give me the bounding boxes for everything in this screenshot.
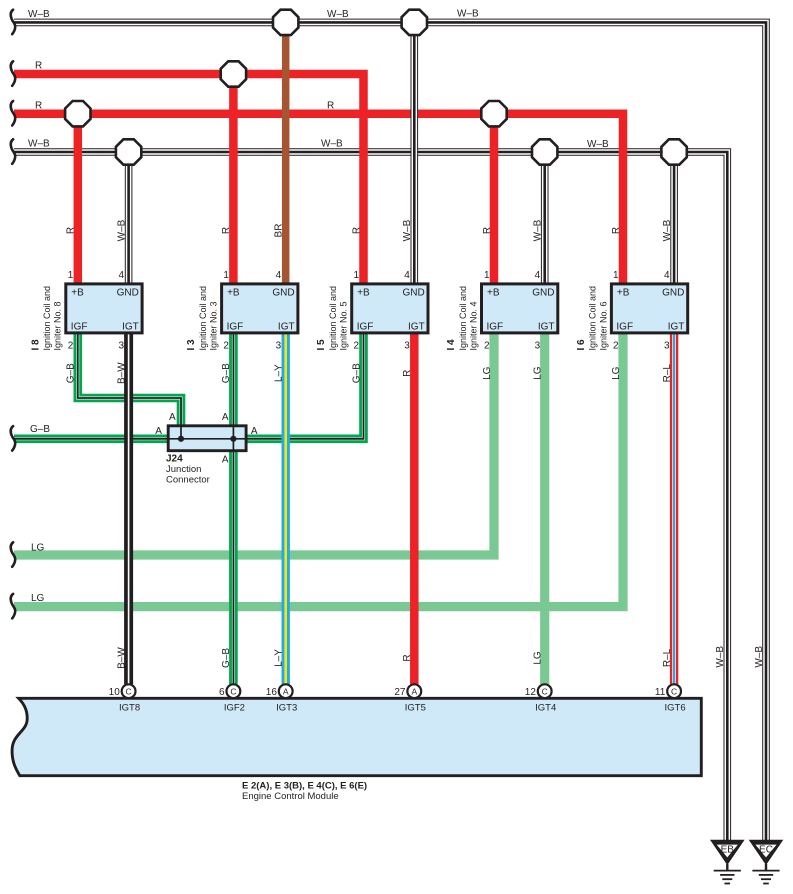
svg-text:EC: EC: [759, 845, 773, 856]
svg-text:R: R: [402, 654, 413, 661]
svg-text:Igniter No. 4: Igniter No. 4: [468, 301, 478, 350]
svg-text:IGT8: IGT8: [119, 703, 140, 714]
svg-text:G–B: G–B: [30, 424, 50, 435]
svg-text:A: A: [283, 686, 289, 696]
svg-text:Ignition Coil and: Ignition Coil and: [328, 286, 338, 351]
svg-text:Igniter No. 8: Igniter No. 8: [53, 301, 63, 350]
svg-text:10: 10: [109, 687, 121, 698]
svg-text:3: 3: [276, 341, 282, 352]
svg-text:W–B: W–B: [116, 219, 127, 241]
svg-text:I 5: I 5: [316, 339, 327, 351]
svg-text:GND: GND: [402, 288, 424, 299]
svg-text:16: 16: [266, 687, 278, 698]
svg-text:4: 4: [404, 270, 410, 281]
svg-text:W–B: W–B: [715, 646, 726, 668]
svg-text:+B: +B: [487, 288, 500, 299]
svg-text:3: 3: [119, 341, 125, 352]
svg-text:R–L: R–L: [662, 648, 673, 667]
svg-text:A: A: [222, 455, 229, 466]
svg-text:IGT: IGT: [408, 322, 425, 333]
svg-text:R: R: [66, 227, 77, 234]
svg-text:4: 4: [535, 270, 541, 281]
svg-text:IGF: IGF: [357, 322, 374, 333]
svg-text:IGF: IGF: [487, 322, 504, 333]
svg-text:R: R: [35, 100, 42, 111]
svg-text:C: C: [230, 686, 236, 696]
svg-text:+B: +B: [617, 288, 630, 299]
svg-text:W–B: W–B: [402, 219, 413, 241]
svg-text:IGT6: IGT6: [665, 703, 686, 714]
svg-text:+B: +B: [71, 288, 84, 299]
svg-text:W–B: W–B: [533, 219, 544, 241]
svg-text:12: 12: [525, 687, 537, 698]
svg-text:A: A: [169, 412, 176, 423]
svg-text:LG: LG: [31, 593, 45, 604]
svg-text:3: 3: [535, 341, 541, 352]
svg-text:1: 1: [484, 270, 490, 281]
svg-text:A: A: [222, 412, 229, 423]
svg-text:G–B: G–B: [221, 648, 232, 668]
svg-text:IGT3: IGT3: [276, 703, 297, 714]
svg-text:W–B: W–B: [457, 9, 479, 20]
svg-text:LG: LG: [482, 366, 493, 380]
svg-text:I 4: I 4: [446, 339, 457, 351]
svg-text:I 6: I 6: [576, 339, 587, 351]
svg-text:I 3: I 3: [186, 339, 197, 351]
svg-text:GND: GND: [117, 288, 139, 299]
svg-text:Igniter No. 3: Igniter No. 3: [209, 301, 219, 350]
svg-text:J24: J24: [166, 454, 183, 465]
svg-text:R: R: [221, 227, 232, 234]
svg-text:W–B: W–B: [28, 139, 50, 150]
svg-text:3: 3: [404, 341, 410, 352]
svg-text:Connector: Connector: [166, 475, 210, 486]
svg-text:B–W: B–W: [116, 647, 127, 669]
svg-text:W–B: W–B: [321, 139, 343, 150]
svg-text:R: R: [327, 100, 334, 111]
svg-text:IGF2: IGF2: [224, 703, 245, 714]
svg-text:+B: +B: [357, 288, 370, 299]
svg-text:GND: GND: [662, 288, 684, 299]
svg-text:R: R: [35, 61, 42, 72]
svg-text:Igniter No. 6: Igniter No. 6: [598, 301, 608, 350]
svg-text:EB: EB: [721, 845, 735, 856]
svg-text:+B: +B: [227, 288, 240, 299]
svg-text:G–B: G–B: [351, 363, 362, 383]
svg-text:4: 4: [119, 270, 125, 281]
svg-text:BR: BR: [274, 224, 285, 238]
svg-text:R–L: R–L: [662, 364, 673, 383]
svg-text:L–Y: L–Y: [274, 364, 285, 382]
svg-text:C: C: [671, 686, 677, 696]
svg-text:IGT4: IGT4: [535, 703, 556, 714]
svg-text:GND: GND: [532, 288, 554, 299]
svg-text:W–B: W–B: [754, 646, 765, 668]
svg-text:IGF: IGF: [71, 322, 88, 333]
svg-text:2: 2: [68, 341, 74, 352]
svg-text:IGT: IGT: [668, 322, 685, 333]
svg-text:A: A: [251, 426, 258, 437]
svg-text:3: 3: [664, 341, 670, 352]
svg-text:IGT: IGT: [122, 322, 139, 333]
svg-text:Ignition Coil and: Ignition Coil and: [198, 286, 208, 351]
svg-text:LG: LG: [533, 366, 544, 380]
svg-text:1: 1: [613, 270, 619, 281]
svg-text:IGT5: IGT5: [405, 703, 426, 714]
svg-text:G–B: G–B: [221, 363, 232, 383]
svg-text:R: R: [611, 227, 622, 234]
svg-text:4: 4: [276, 270, 282, 281]
svg-text:Junction: Junction: [166, 464, 201, 475]
svg-text:W–B: W–B: [587, 139, 609, 150]
svg-text:IGF: IGF: [227, 322, 244, 333]
svg-text:2: 2: [484, 341, 490, 352]
svg-text:6: 6: [219, 687, 225, 698]
svg-text:LG: LG: [31, 543, 45, 554]
svg-text:G–B: G–B: [66, 363, 77, 383]
svg-text:W–B: W–B: [28, 9, 50, 20]
svg-text:Igniter No. 5: Igniter No. 5: [339, 301, 349, 350]
svg-text:A: A: [411, 686, 417, 696]
svg-text:W–B: W–B: [662, 219, 673, 241]
svg-text:C: C: [542, 686, 548, 696]
svg-text:IGF: IGF: [616, 322, 633, 333]
svg-text:IGT: IGT: [538, 322, 555, 333]
svg-text:E 2(A), E 3(B), E 4(C), E 6(E): E 2(A), E 3(B), E 4(C), E 6(E): [242, 780, 367, 791]
svg-text:Ignition Coil and: Ignition Coil and: [42, 286, 52, 351]
svg-text:Ignition Coil and: Ignition Coil and: [588, 286, 598, 351]
svg-text:Ignition Coil and: Ignition Coil and: [458, 286, 468, 351]
svg-text:B–W: B–W: [116, 362, 127, 384]
svg-text:1: 1: [68, 270, 74, 281]
svg-text:2: 2: [353, 341, 359, 352]
svg-text:C: C: [126, 686, 132, 696]
svg-text:2: 2: [223, 341, 229, 352]
svg-text:I 8: I 8: [30, 339, 41, 351]
svg-text:A: A: [155, 426, 162, 437]
svg-text:W–B: W–B: [327, 9, 349, 20]
svg-text:27: 27: [394, 687, 406, 698]
svg-text:R: R: [482, 227, 493, 234]
svg-text:1: 1: [223, 270, 229, 281]
svg-text:R: R: [402, 370, 413, 377]
svg-text:2: 2: [613, 341, 619, 352]
svg-text:IGT: IGT: [278, 322, 295, 333]
svg-text:Engine Control Module: Engine Control Module: [242, 791, 339, 802]
svg-text:1: 1: [353, 270, 359, 281]
svg-text:LG: LG: [611, 366, 622, 380]
svg-text:L–Y: L–Y: [274, 649, 285, 667]
svg-text:11: 11: [655, 687, 666, 698]
svg-text:R: R: [351, 227, 362, 234]
svg-text:LG: LG: [533, 651, 544, 665]
svg-text:4: 4: [664, 270, 670, 281]
svg-text:GND: GND: [272, 288, 294, 299]
